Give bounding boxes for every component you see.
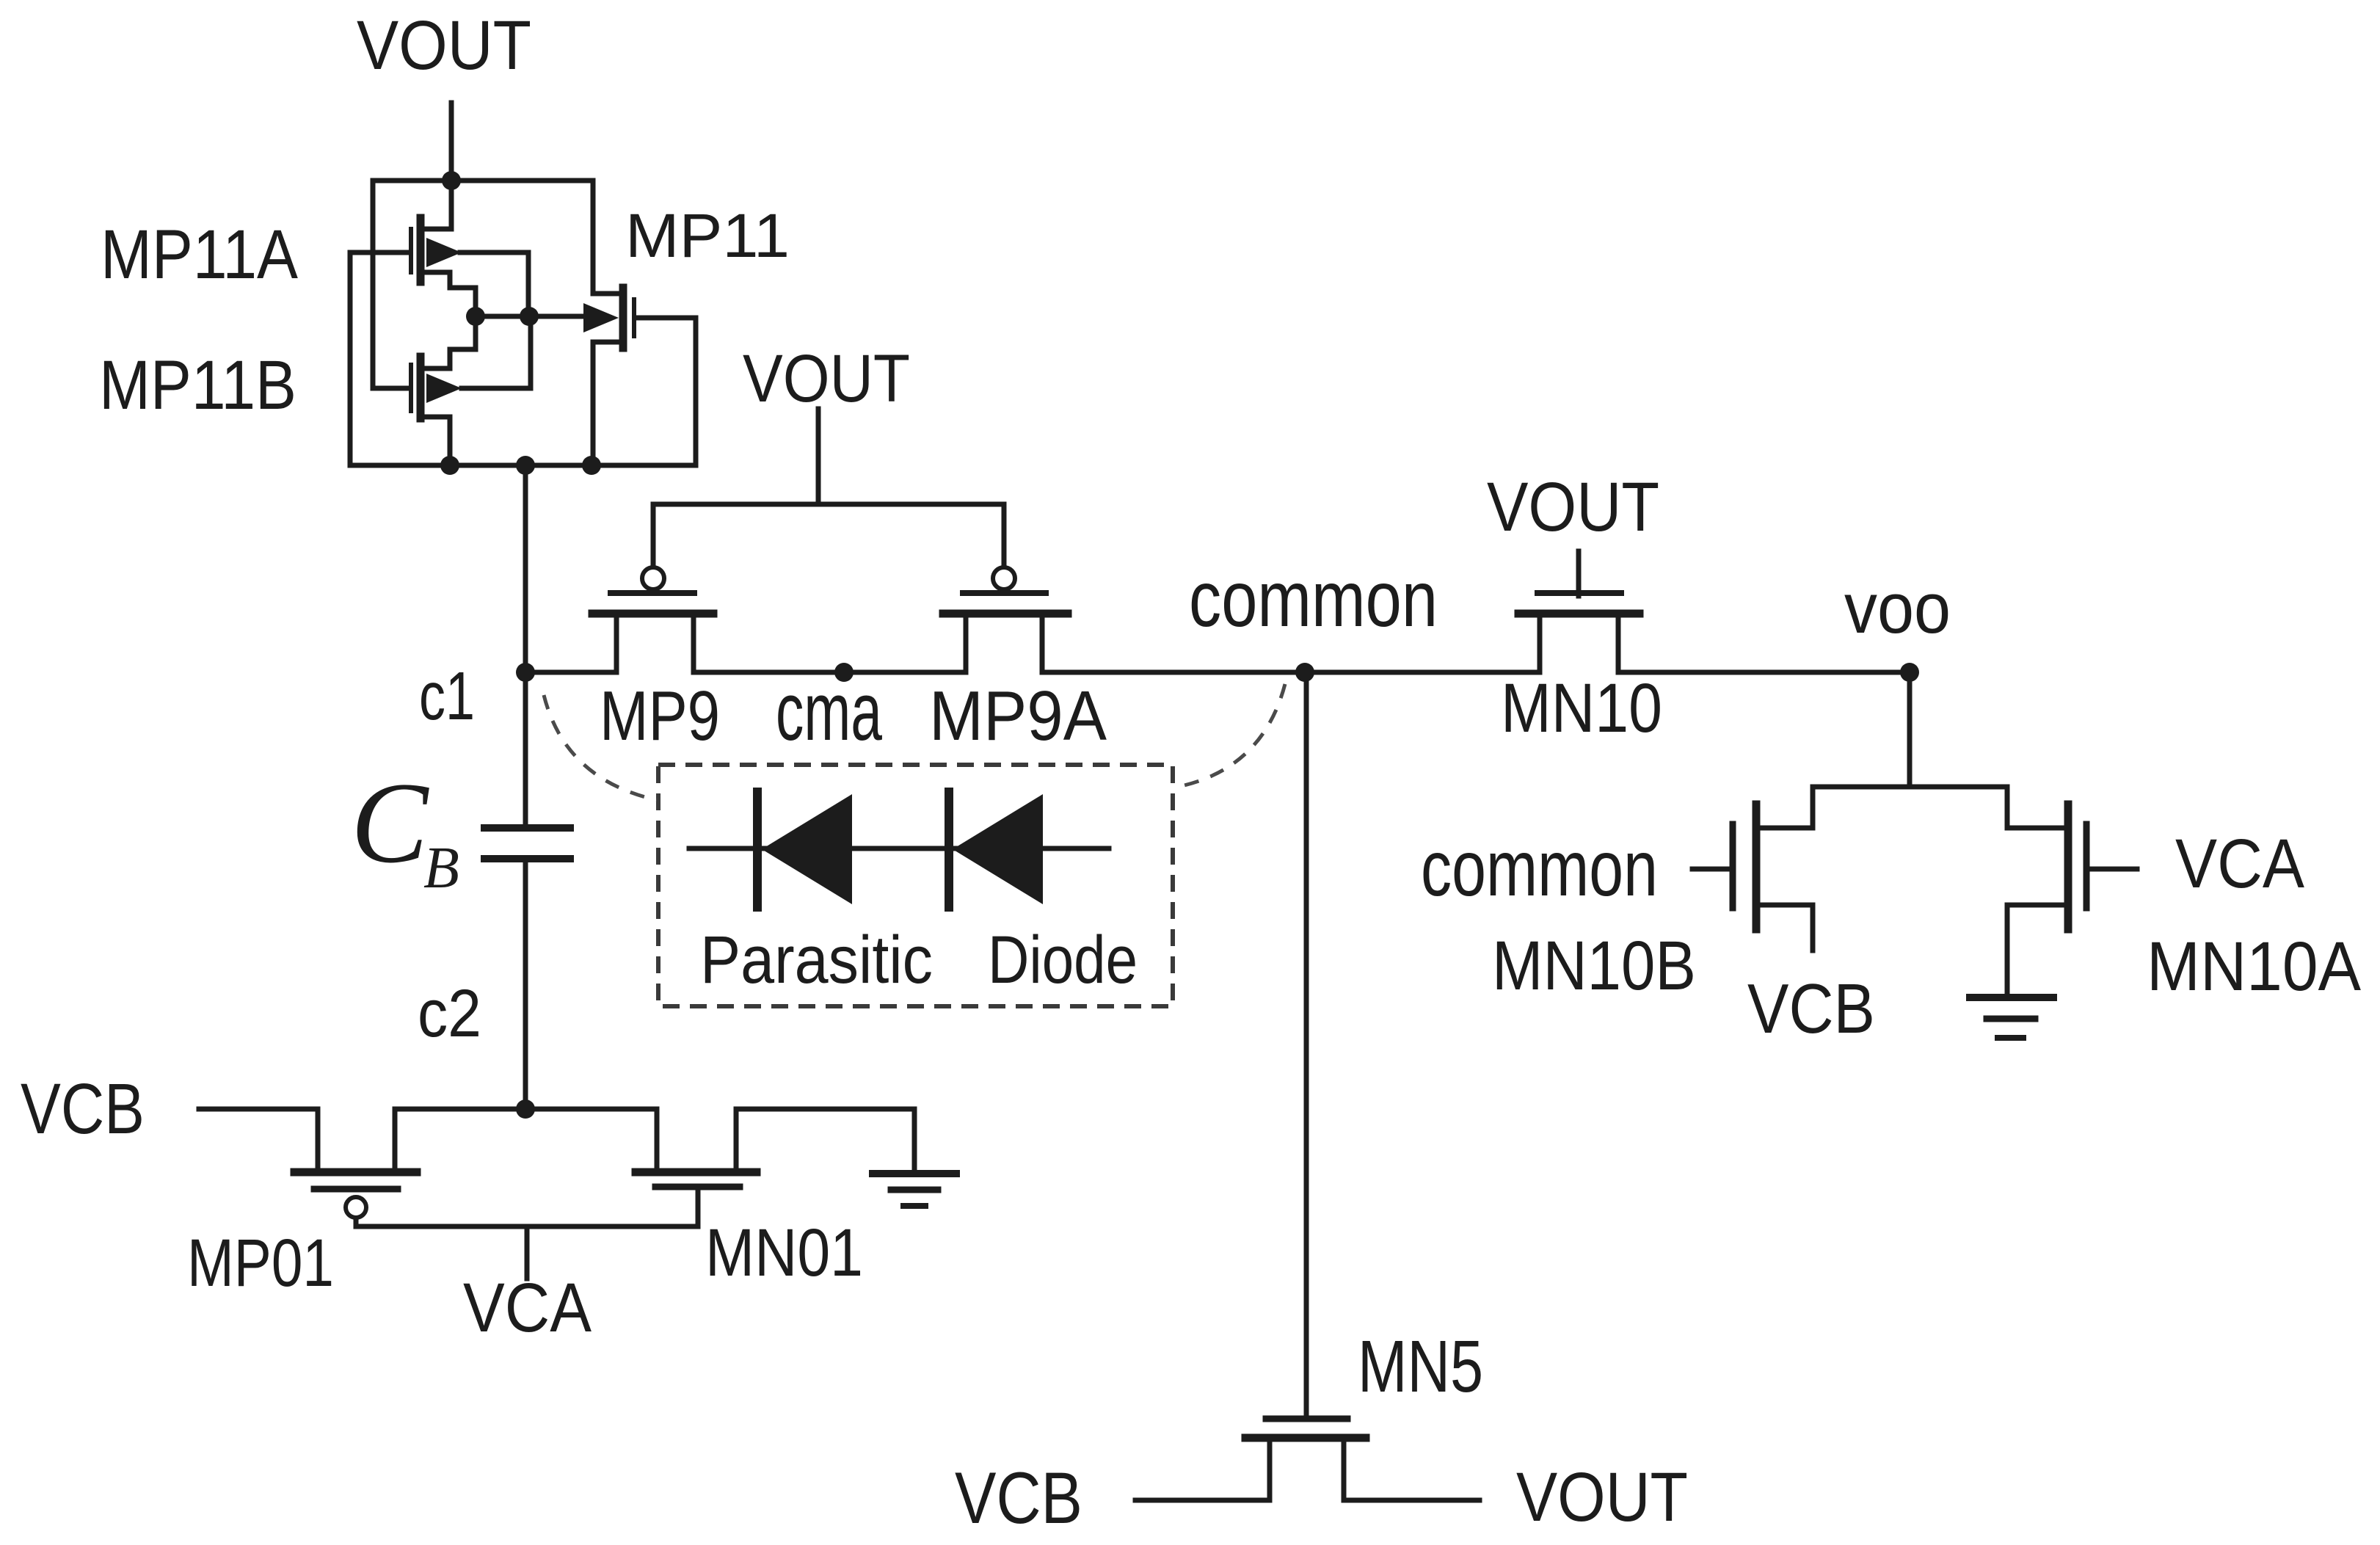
svg-text:MP11A: MP11A xyxy=(101,216,299,294)
svg-text:VCB: VCB xyxy=(955,1457,1082,1538)
svg-text:c1: c1 xyxy=(419,658,475,734)
svg-text:VCA: VCA xyxy=(2175,825,2305,903)
svg-text:MN10A: MN10A xyxy=(2147,928,2362,1006)
svg-text:cma: cma xyxy=(776,666,882,757)
svg-text:MP01: MP01 xyxy=(187,1226,334,1301)
svg-text:VOUT: VOUT xyxy=(1487,468,1659,546)
svg-text:c2: c2 xyxy=(418,976,481,1051)
svg-text:VOUT: VOUT xyxy=(743,341,910,416)
svg-text:VCA: VCA xyxy=(463,1269,592,1347)
svg-text:common: common xyxy=(1421,824,1658,912)
svg-text:MP9: MP9 xyxy=(600,677,720,755)
svg-text:VCB: VCB xyxy=(21,1069,145,1149)
svg-text:VOUT: VOUT xyxy=(1516,1458,1688,1536)
svg-text:MP11: MP11 xyxy=(625,201,790,270)
svg-text:MN5: MN5 xyxy=(1358,1326,1483,1408)
svg-text:VCB: VCB xyxy=(1747,970,1875,1048)
svg-text:MP11B: MP11B xyxy=(99,346,296,424)
svg-text:MP9A: MP9A xyxy=(929,677,1107,755)
svg-text:common: common xyxy=(1189,554,1438,643)
svg-text:Diode: Diode xyxy=(988,923,1138,997)
svg-text:voo: voo xyxy=(1844,568,1951,648)
svg-text:VOUT: VOUT xyxy=(357,7,531,84)
svg-text:Parasitic: Parasitic xyxy=(700,923,933,997)
svg-text:MN10: MN10 xyxy=(1501,669,1662,747)
svg-text:MN01: MN01 xyxy=(705,1215,863,1290)
svg-text:C: C xyxy=(351,759,429,887)
svg-text:MN10B: MN10B xyxy=(1492,927,1696,1005)
svg-text:B: B xyxy=(423,836,459,901)
